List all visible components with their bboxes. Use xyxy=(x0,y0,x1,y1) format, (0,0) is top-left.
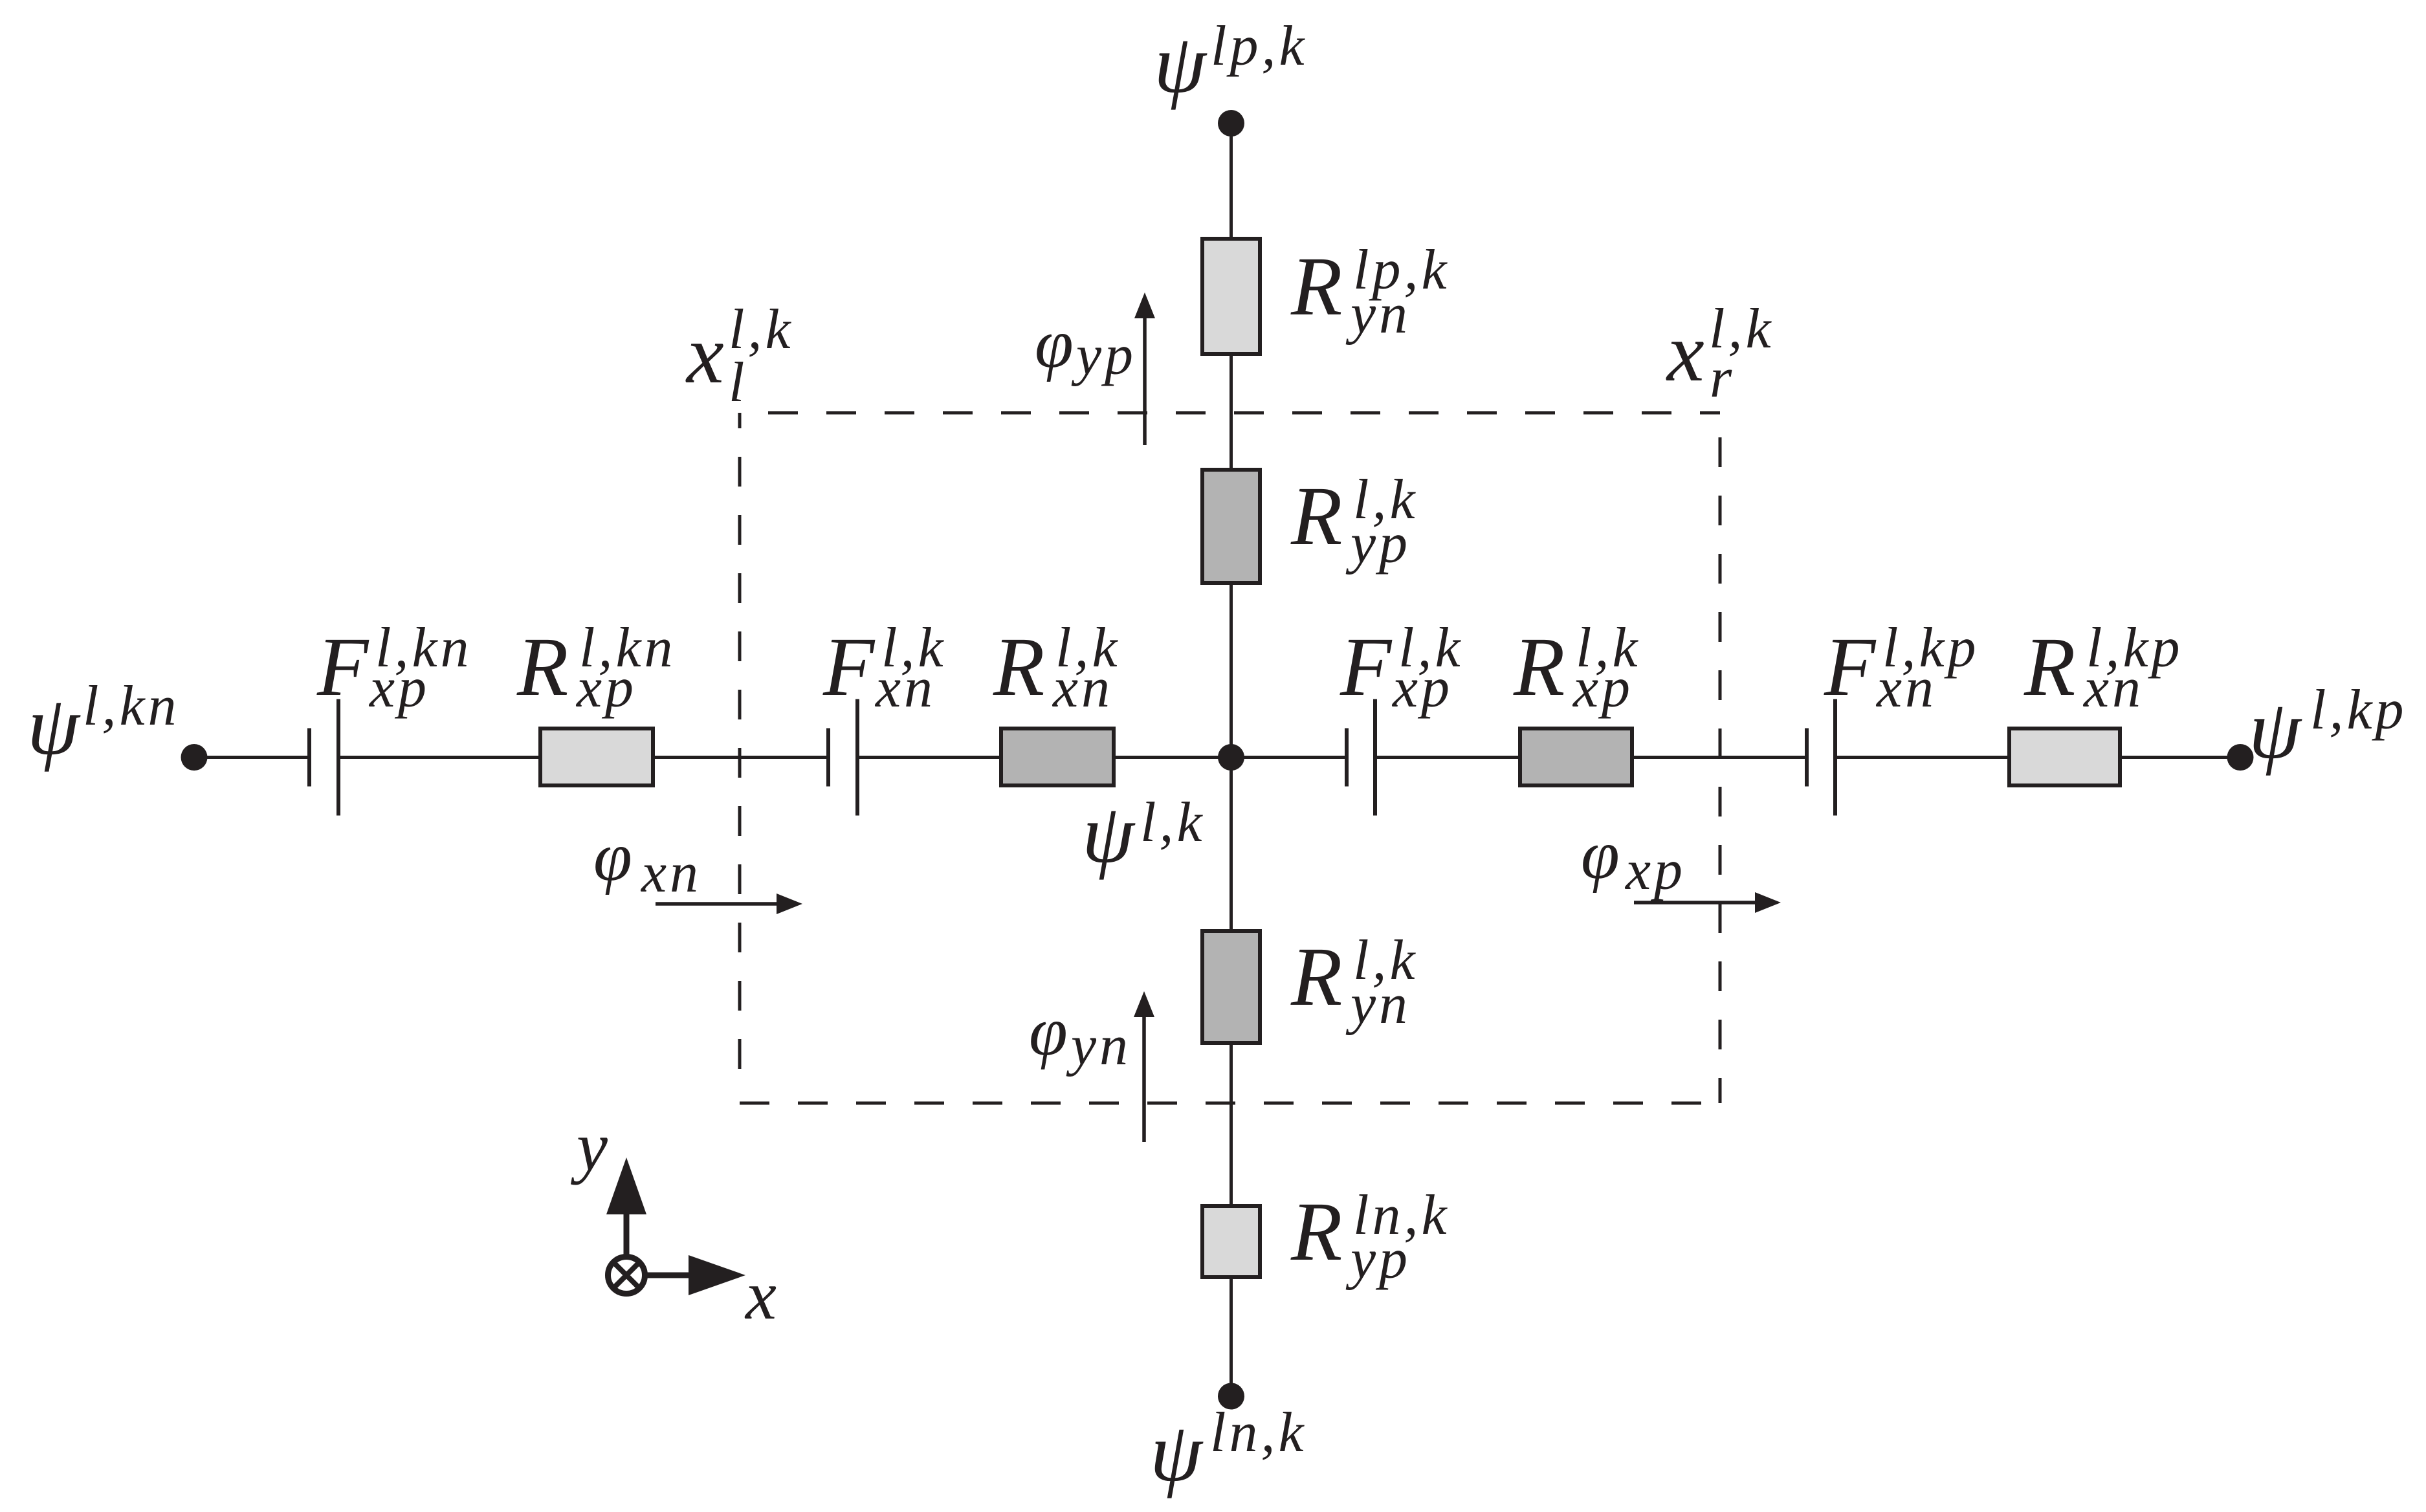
svg-text:ln,k: ln,k xyxy=(1210,1401,1307,1464)
svg-text:l,kp: l,kp xyxy=(2310,679,2407,741)
svg-text:yn: yn xyxy=(1066,1014,1131,1077)
svg-text:F: F xyxy=(316,620,369,714)
reluctance R4 body (Rxn l,kp light) xyxy=(2009,729,2120,785)
wire: Ryp-ln,k to bottom node xyxy=(1230,1277,1233,1396)
svg-text:R: R xyxy=(1290,930,1342,1024)
flux arrow phi_xn xyxy=(656,902,777,906)
mmf source F4 long plate xyxy=(1833,699,1837,816)
wire: R1 to F2 xyxy=(655,756,826,759)
svg-text:ψ: ψ xyxy=(27,679,81,772)
svg-text:r: r xyxy=(1710,347,1735,410)
svg-text:xp: xp xyxy=(575,657,637,719)
svg-text:ψ: ψ xyxy=(1154,17,1207,111)
wire: R4 to right node xyxy=(2122,756,2240,759)
reluctance Ryn lp,k body (top light) xyxy=(1202,239,1260,354)
svg-text:ψ: ψ xyxy=(1150,1406,1204,1499)
svg-text:φ: φ xyxy=(1581,816,1620,893)
mmf source F4 short plate xyxy=(1805,729,1809,787)
wire: Ryn-lp,k to Ryp-l,k xyxy=(1230,354,1233,470)
dashed cell boundary box: left edge xyxy=(738,413,742,1096)
svg-text:R: R xyxy=(516,620,568,714)
wire: center node to F3 xyxy=(1231,756,1345,759)
mmf source F2 short plate xyxy=(826,729,830,787)
flux arrow phi_xp xyxy=(1634,901,1755,904)
reluctance Ryp l,k body (upper dark) xyxy=(1202,470,1260,583)
svg-text:ψ: ψ xyxy=(2249,683,2302,776)
mmf source F3 short plate xyxy=(1345,729,1349,787)
svg-text:R: R xyxy=(1290,240,1342,333)
wire: F1 to R1 xyxy=(340,756,540,759)
node psi l,kn terminal dot xyxy=(181,744,208,771)
svg-text:l,k: l,k xyxy=(1140,791,1206,854)
dashed cell boundary box: bottom edge xyxy=(740,1102,1720,1105)
reluctance R1 body (Rxp l,kn light) xyxy=(540,729,653,785)
wire: center node to Ryn-l,k xyxy=(1230,757,1233,931)
wire: F2 to R2 xyxy=(859,756,1001,759)
svg-text:x: x xyxy=(1666,306,1704,399)
svg-text:yn: yn xyxy=(1345,973,1411,1036)
wire: Ryp-l,k to center node xyxy=(1230,583,1233,757)
svg-text:xp: xp xyxy=(368,657,430,719)
flux arrow phi_yp xyxy=(1143,318,1147,445)
svg-text:ψ: ψ xyxy=(1082,787,1136,881)
reluctance Ryp ln,k body (bottom light) xyxy=(1202,1206,1260,1277)
reluctance R3 body (Rxp l,k dark) xyxy=(1520,729,1632,785)
svg-text:R: R xyxy=(2024,620,2075,714)
mmf source F1 long plate xyxy=(336,699,340,816)
svg-text:F: F xyxy=(1824,620,1877,714)
svg-text:φ: φ xyxy=(593,818,632,895)
svg-text:xn: xn xyxy=(874,657,936,719)
svg-text:xn: xn xyxy=(2082,657,2144,719)
node psi lp,k terminal dot xyxy=(1218,110,1244,137)
svg-text:yn: yn xyxy=(1345,283,1411,345)
svg-text:φ: φ xyxy=(1029,993,1068,1070)
svg-text:xn: xn xyxy=(1875,657,1937,719)
center node psi l,k junction dot xyxy=(1218,744,1244,771)
svg-text:F: F xyxy=(822,620,876,714)
svg-text:l,kn: l,kn xyxy=(83,675,180,738)
wire: R3 to F4 xyxy=(1634,756,1805,759)
wire: F3 to R3 xyxy=(1377,756,1520,759)
svg-text:yp: yp xyxy=(1071,324,1136,387)
svg-text:x: x xyxy=(685,308,724,401)
y axis arrow xyxy=(624,1213,630,1255)
node psi l,kp terminal dot xyxy=(2227,744,2254,771)
flux arrow phi_yn xyxy=(1142,1017,1146,1142)
svg-text:yp: yp xyxy=(1345,512,1411,575)
dashed cell boundary box: right edge xyxy=(1719,413,1722,1103)
svg-text:xp: xp xyxy=(1572,657,1633,719)
wire: F4 to R4 xyxy=(1837,756,2009,759)
svg-text:R: R xyxy=(1513,620,1565,714)
svg-text:lp,k: lp,k xyxy=(1211,15,1308,78)
svg-text:xn: xn xyxy=(1052,657,1113,719)
coordinate origin symbol (z into page) xyxy=(608,1257,645,1294)
reluctance R2 body (Rxn l,k dark) xyxy=(1001,729,1114,785)
wire: top node down to Ryn-lp,k xyxy=(1230,123,1233,239)
svg-text:R: R xyxy=(1290,470,1342,563)
reluctance Ryn l,k body (lower dark) xyxy=(1202,931,1260,1043)
svg-text:xn: xn xyxy=(640,842,701,904)
svg-text:R: R xyxy=(993,620,1044,714)
svg-text:φ: φ xyxy=(1035,305,1074,382)
svg-text:xp: xp xyxy=(1391,657,1453,719)
node psi ln,k terminal dot xyxy=(1218,1383,1244,1410)
wire: Ryn-l,k to Ryp-ln,k xyxy=(1230,1043,1233,1206)
wire: left node to F1 xyxy=(194,756,307,759)
mmf source F3 long plate xyxy=(1373,699,1377,816)
svg-text:xp: xp xyxy=(1624,839,1686,902)
x axis arrow xyxy=(646,1273,690,1278)
svg-text:yp: yp xyxy=(1345,1228,1411,1291)
dashed cell boundary box: top edge xyxy=(740,411,1720,415)
svg-text:l: l xyxy=(729,351,747,414)
mmf source F1 short plate xyxy=(307,729,311,787)
wire: R2 to center node xyxy=(1116,756,1231,759)
mmf source F2 long plate xyxy=(855,699,859,816)
svg-text:F: F xyxy=(1340,620,1393,714)
svg-text:x: x xyxy=(744,1257,777,1334)
svg-text:R: R xyxy=(1290,1185,1342,1278)
